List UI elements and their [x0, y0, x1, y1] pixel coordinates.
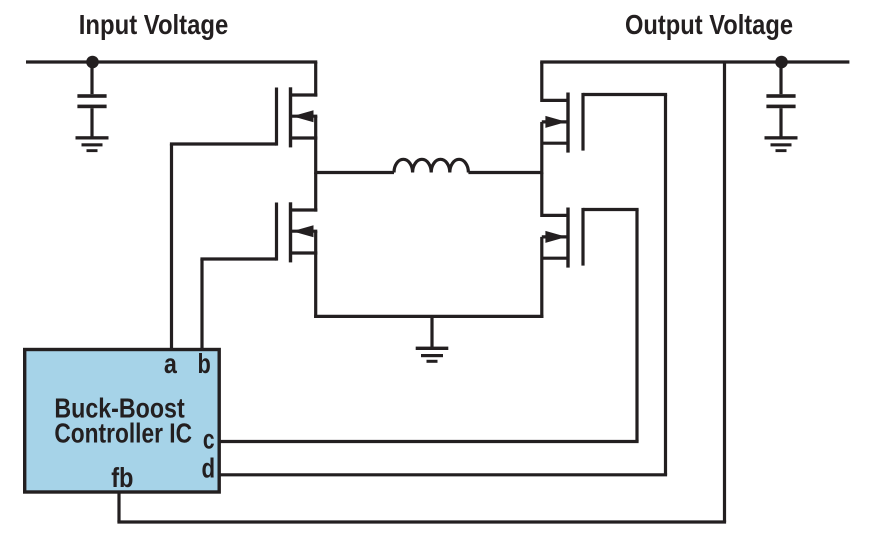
M3 channel bar	[566, 93, 569, 153]
svg-text:a: a	[164, 348, 178, 379]
M4 drain stub	[542, 214, 568, 217]
wire input rail	[26, 60, 317, 63]
inductor L1	[316, 159, 542, 172]
M3 body line	[542, 120, 567, 123]
M1 body line	[292, 115, 317, 118]
M1 drain vertical	[314, 62, 317, 97]
wire output rail	[540, 60, 849, 63]
M3 drain stub	[542, 99, 568, 102]
wire gate b	[200, 259, 276, 350]
capacitor C2	[766, 62, 795, 137]
svg-text:fb: fb	[111, 462, 133, 493]
M3 drain vertical	[540, 62, 543, 102]
wire feedback fb	[117, 62, 726, 522]
svg-text:Input Voltage: Input Voltage	[79, 9, 229, 40]
M1 gate bar	[275, 88, 278, 146]
wire gate d (to M3)	[219, 95, 667, 475]
M2 source vertical	[314, 231, 317, 318]
M1 source stub	[291, 136, 318, 139]
M1 drain stub	[291, 93, 318, 96]
M1 body arrow	[292, 110, 313, 122]
M4 channel bar	[566, 208, 569, 268]
ground center	[416, 316, 449, 362]
M4 body arrow	[545, 231, 566, 243]
wire bottom rail	[314, 315, 543, 318]
controller U1 Buck-Boost Controller IC	[25, 350, 220, 493]
wire gate a	[170, 144, 277, 350]
ground output cap	[765, 136, 798, 152]
mosfet M2 (bottom-left)	[277, 173, 318, 319]
node output junction	[775, 56, 788, 69]
mosfet M4 (bottom-right)	[542, 173, 583, 319]
M1 source vertical	[314, 116, 317, 174]
M3 gate bar	[581, 93, 584, 151]
M2 body arrow	[292, 225, 313, 237]
M3 source vertical	[540, 122, 543, 174]
M3 body arrow	[545, 116, 566, 128]
wire gate c (to M4)	[219, 210, 638, 442]
M2 source stub	[291, 251, 318, 254]
node input junction	[86, 56, 99, 69]
svg-text:Output Voltage: Output Voltage	[625, 9, 793, 40]
ground input cap	[76, 136, 109, 152]
capacitor C1	[77, 62, 106, 137]
M4 source vertical	[540, 237, 543, 318]
svg-text:d: d	[202, 453, 216, 484]
M4 drain vertical	[540, 173, 543, 218]
svg-text:Controller IC: Controller IC	[54, 418, 192, 449]
mosfet M1 (top-left)	[277, 62, 318, 174]
M2 drain vertical	[314, 173, 317, 212]
M4 source stub	[542, 257, 568, 260]
mosfet M3 (top-right)	[542, 62, 583, 174]
M2 channel bar	[289, 202, 292, 262]
svg-text:c: c	[203, 424, 215, 455]
M4 body line	[542, 235, 567, 238]
M4 gate bar	[581, 208, 584, 266]
M2 drain stub	[291, 208, 318, 211]
M1 channel bar	[289, 87, 292, 147]
svg-text:b: b	[198, 348, 211, 379]
M2 body line	[292, 230, 317, 233]
M2 gate bar	[275, 203, 278, 261]
M3 source stub	[542, 142, 568, 145]
